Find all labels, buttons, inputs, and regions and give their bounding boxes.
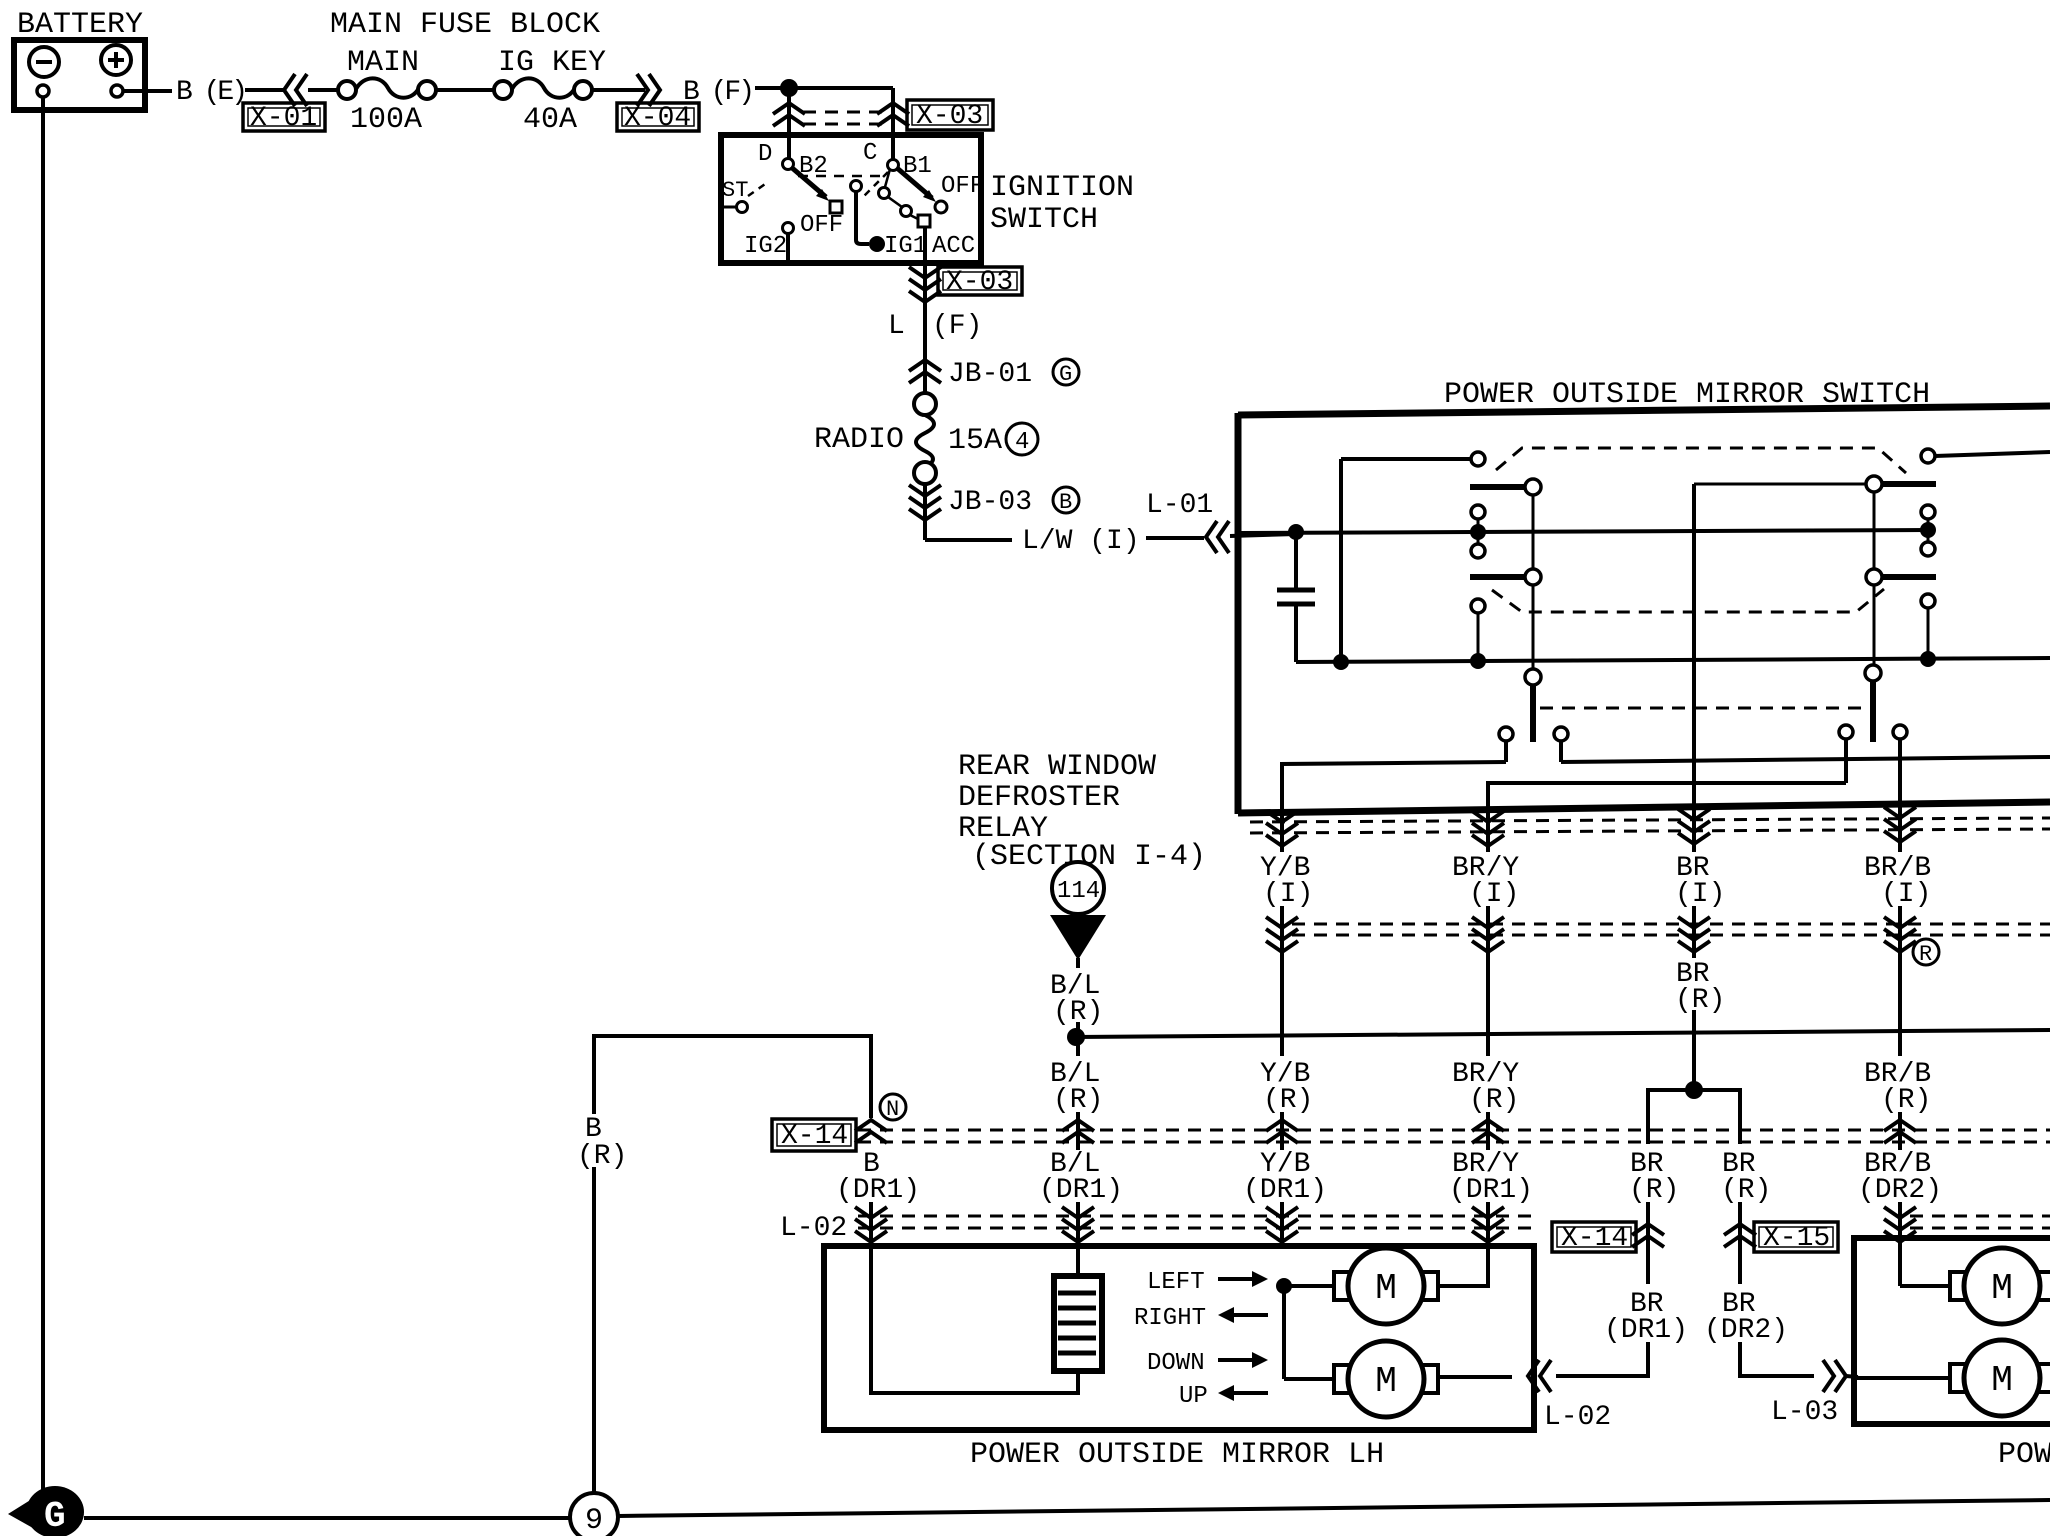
svg-text:4: 4 [1015, 429, 1029, 456]
svg-text:RADIO: RADIO [814, 423, 904, 457]
svg-text:(R): (R) [1263, 1085, 1313, 1116]
svg-text:(R): (R) [577, 1141, 627, 1172]
svg-text:(SECTION I-4): (SECTION I-4) [972, 840, 1206, 874]
svg-text:X-15: X-15 [1763, 1223, 1830, 1254]
svg-text:X-01: X-01 [250, 103, 317, 134]
svg-text:(I): (I) [1675, 879, 1725, 910]
svg-text:(DR2): (DR2) [1704, 1315, 1788, 1346]
svg-text:(DR1): (DR1) [1604, 1315, 1688, 1346]
svg-text:(R): (R) [1881, 1085, 1931, 1116]
svg-text:G: G [44, 1496, 66, 1536]
svg-text:JB-03: JB-03 [948, 487, 1032, 518]
svg-text:BATTERY: BATTERY [17, 8, 143, 42]
svg-text:IG1: IG1 [884, 233, 927, 260]
svg-text:L-02: L-02 [1544, 1402, 1611, 1433]
svg-text:POWER OUTSIDE MIRROR LH: POWER OUTSIDE MIRROR LH [970, 1438, 1384, 1472]
svg-text:DOWN: DOWN [1147, 1350, 1205, 1377]
svg-text:100A: 100A [350, 103, 422, 137]
svg-text:RIGHT: RIGHT [1134, 1305, 1206, 1332]
svg-text:15A: 15A [948, 424, 1002, 458]
svg-text:IGNITION: IGNITION [990, 171, 1134, 205]
svg-text:(DR2): (DR2) [1858, 1175, 1942, 1206]
svg-text:G: G [1059, 362, 1072, 387]
svg-text:ACC: ACC [932, 233, 975, 260]
svg-text:(R): (R) [1675, 985, 1725, 1016]
svg-text:(DR1): (DR1) [1449, 1175, 1533, 1206]
svg-text:X-14: X-14 [781, 1121, 848, 1152]
svg-text:X-03: X-03 [946, 267, 1013, 298]
svg-text:SWITCH: SWITCH [990, 203, 1098, 237]
svg-text:9: 9 [585, 1504, 603, 1536]
svg-text:LEFT: LEFT [1147, 1269, 1205, 1296]
svg-text:L: L [888, 311, 905, 342]
svg-text:IG2: IG2 [744, 233, 787, 260]
svg-text:OFF: OFF [800, 212, 843, 239]
svg-text:B (E): B (E) [176, 77, 245, 108]
svg-text:(R): (R) [1053, 1085, 1103, 1116]
svg-text:POWER OUTSIDE MIRROR RH: POWER OUTSIDE MIRROR RH [1998, 1438, 2050, 1472]
svg-text:N: N [886, 1097, 899, 1122]
svg-text:C: C [863, 140, 877, 167]
svg-text:D: D [758, 141, 772, 168]
svg-text:(R): (R) [1469, 1085, 1519, 1116]
svg-text:L-02: L-02 [780, 1213, 847, 1244]
svg-text:114: 114 [1057, 878, 1100, 905]
svg-text:MAIN: MAIN [347, 46, 419, 80]
svg-text:ST: ST [722, 178, 748, 203]
svg-text:(R): (R) [1629, 1175, 1679, 1206]
svg-text:R: R [1919, 942, 1932, 967]
svg-text:B (F): B (F) [683, 77, 752, 108]
svg-text:(I): (I) [1469, 879, 1519, 910]
svg-text:DEFROSTER: DEFROSTER [958, 781, 1120, 815]
svg-text:REAR WINDOW: REAR WINDOW [958, 750, 1156, 784]
svg-text:IG KEY: IG KEY [498, 46, 606, 80]
svg-text:X-14: X-14 [1561, 1223, 1628, 1254]
svg-text:L/W (I): L/W (I) [1022, 526, 1140, 557]
svg-text:(DR1): (DR1) [1039, 1175, 1123, 1206]
svg-text:L-03: L-03 [1771, 1397, 1838, 1428]
svg-text:X-03: X-03 [916, 101, 983, 132]
svg-text:(R): (R) [1721, 1175, 1771, 1206]
svg-text:JB-01: JB-01 [948, 359, 1032, 390]
svg-text:OFF: OFF [941, 173, 984, 200]
svg-text:B: B [1059, 490, 1072, 515]
svg-text:(I): (I) [1881, 879, 1931, 910]
svg-text:(DR1): (DR1) [836, 1175, 920, 1206]
svg-text:X-04: X-04 [624, 103, 691, 134]
svg-text:UP: UP [1179, 1383, 1208, 1410]
svg-text:(DR1): (DR1) [1243, 1175, 1327, 1206]
svg-text:MAIN FUSE BLOCK: MAIN FUSE BLOCK [330, 8, 600, 42]
svg-text:L-01: L-01 [1146, 490, 1213, 521]
svg-text:(F): (F) [932, 311, 982, 342]
svg-text:40A: 40A [523, 103, 577, 137]
svg-text:(I): (I) [1263, 879, 1313, 910]
